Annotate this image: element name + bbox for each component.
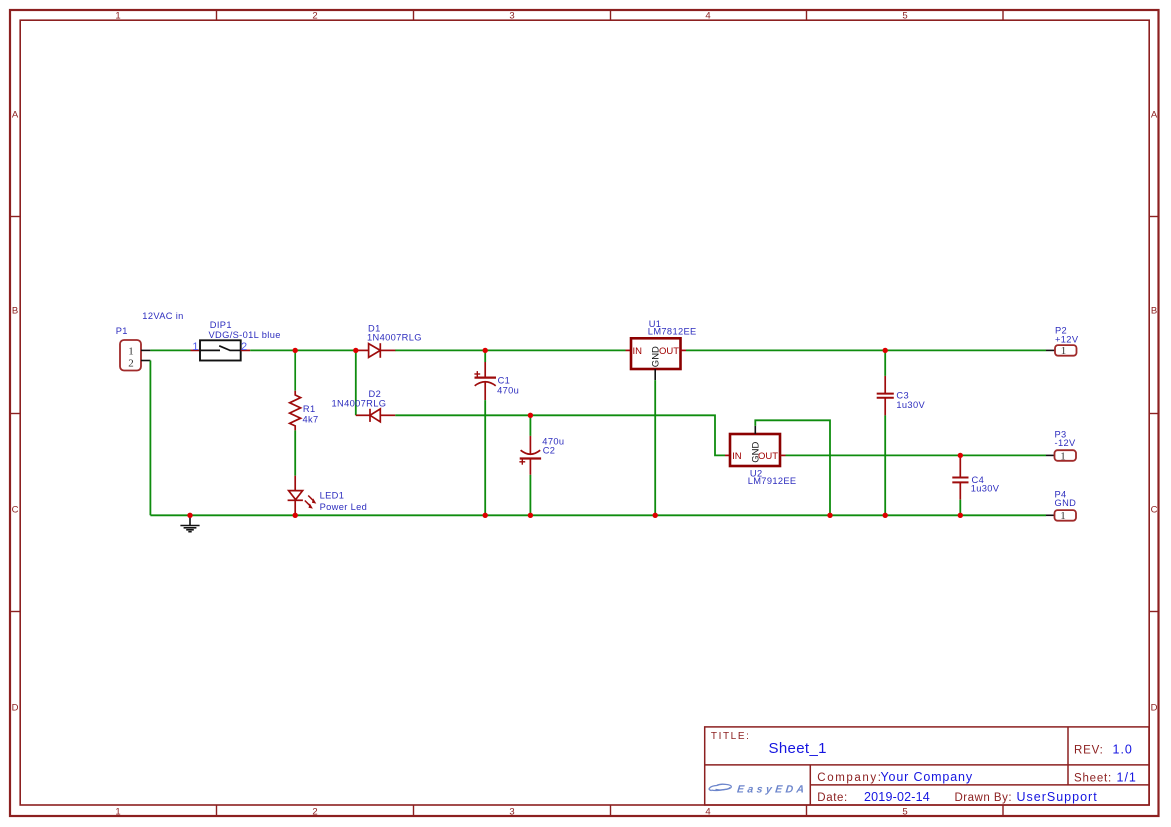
junction C1 ground rail bbox=[483, 513, 488, 518]
svg-text:A: A bbox=[12, 110, 19, 121]
junction C3 ground rail bbox=[883, 513, 888, 518]
connector P4 bbox=[1046, 510, 1076, 522]
regulator U1 bbox=[626, 338, 687, 369]
junction C2 negative rail bbox=[528, 413, 533, 418]
wire U2 GND to ground rail bbox=[755, 420, 830, 515]
svg-text:5: 5 bbox=[902, 807, 907, 818]
LED1 light arrows bbox=[309, 498, 317, 508]
capacitor C4 bbox=[952, 457, 968, 500]
svg-text:-12V: -12V bbox=[1055, 438, 1076, 448]
svg-text:2: 2 bbox=[312, 11, 317, 22]
svg-text:1: 1 bbox=[128, 346, 134, 358]
svg-text:1: 1 bbox=[192, 341, 198, 353]
wire U2 OUT to P3 bbox=[786, 454, 1047, 456]
svg-text:D: D bbox=[12, 703, 19, 714]
wire C3 down bbox=[884, 415, 886, 515]
capacitor C3 bbox=[877, 350, 894, 415]
U2 GND stub bbox=[754, 426, 756, 434]
ground rail bbox=[150, 514, 1046, 516]
junction U2 GND ground rail bbox=[827, 513, 832, 518]
junction R1 top rail bbox=[293, 348, 298, 353]
svg-text:1: 1 bbox=[1061, 345, 1067, 357]
wire C2 down bbox=[529, 475, 531, 516]
svg-text:B: B bbox=[1151, 306, 1157, 317]
svg-text:GND: GND bbox=[750, 442, 761, 463]
EasyEDA logo bbox=[709, 783, 808, 795]
wire R1 to LED1 bbox=[294, 430, 296, 475]
svg-text:VDG/S-01L blue: VDG/S-01L blue bbox=[209, 330, 281, 340]
regulator U2 bbox=[725, 434, 786, 466]
svg-text:1: 1 bbox=[1060, 450, 1066, 462]
junction C2 ground rail bbox=[528, 513, 533, 518]
svg-text:Your Company: Your Company bbox=[881, 770, 973, 784]
svg-text:3: 3 bbox=[509, 807, 514, 818]
svg-text:LED1: LED1 bbox=[320, 491, 345, 501]
junction D2 branch top rail bbox=[353, 348, 358, 353]
svg-text:Power Led: Power Led bbox=[320, 502, 368, 512]
svg-text:TITLE:: TITLE: bbox=[711, 731, 751, 742]
wire C4 down bbox=[959, 500, 961, 516]
U1 GND stub bbox=[654, 369, 656, 380]
svg-text:DIP1: DIP1 bbox=[210, 320, 232, 330]
wire U1 GND down bbox=[654, 380, 656, 515]
LED LED1 bbox=[288, 476, 314, 516]
svg-text:IN: IN bbox=[633, 346, 643, 357]
svg-text:1: 1 bbox=[115, 11, 120, 22]
svg-text:1u30V: 1u30V bbox=[896, 400, 925, 410]
svg-text:Sheet_1: Sheet_1 bbox=[769, 740, 827, 757]
svg-text:12VAC in: 12VAC in bbox=[142, 311, 183, 321]
ground symbol bbox=[180, 515, 199, 531]
svg-text:D2: D2 bbox=[369, 389, 382, 399]
svg-text:+12V: +12V bbox=[1055, 335, 1079, 345]
svg-text:4: 4 bbox=[705, 807, 710, 818]
capacitor C1 bbox=[474, 350, 496, 400]
wire branch down to D2 bbox=[355, 350, 357, 415]
svg-text:Company:: Company: bbox=[817, 772, 882, 784]
wire U1 OUT to P2 bbox=[686, 349, 1046, 351]
svg-text:REV:: REV: bbox=[1074, 745, 1104, 757]
wire P1 pin2 down bbox=[149, 361, 151, 516]
P1 pin 1 stub bbox=[141, 349, 150, 351]
capacitor C2 bbox=[519, 415, 541, 475]
svg-text:4: 4 bbox=[705, 11, 710, 22]
svg-text:1/1: 1/1 bbox=[1117, 771, 1137, 785]
title block bbox=[705, 727, 1149, 805]
svg-text:3: 3 bbox=[509, 11, 514, 22]
wire D2 row bbox=[395, 415, 725, 455]
svg-text:C1: C1 bbox=[498, 376, 511, 386]
svg-text:LM7812EE: LM7812EE bbox=[648, 326, 697, 336]
junction C4 output wire bbox=[958, 453, 963, 458]
svg-text:R1: R1 bbox=[303, 404, 316, 414]
svg-text:1: 1 bbox=[1060, 510, 1066, 522]
diode D1 bbox=[356, 343, 396, 358]
svg-text:5: 5 bbox=[902, 11, 907, 22]
svg-text:470u: 470u bbox=[497, 386, 519, 396]
junction ground symbol rail bbox=[187, 513, 192, 518]
svg-text:1u30V: 1u30V bbox=[971, 484, 1000, 494]
svg-text:Date:: Date: bbox=[817, 792, 848, 804]
svg-text:D: D bbox=[1151, 703, 1158, 714]
svg-text:OUT: OUT bbox=[659, 346, 679, 357]
svg-text:2: 2 bbox=[312, 807, 317, 818]
connector P2 bbox=[1046, 345, 1077, 357]
junction C3 top rail bbox=[883, 348, 888, 353]
junction U1 GND ground rail bbox=[653, 513, 658, 518]
svg-text:4k7: 4k7 bbox=[303, 414, 319, 424]
svg-text:UserSupport: UserSupport bbox=[1017, 790, 1098, 804]
junction LED1 ground rail bbox=[293, 513, 298, 518]
svg-text:C3: C3 bbox=[896, 391, 909, 401]
switch DIP1 bbox=[191, 340, 251, 360]
svg-text:Sheet:: Sheet: bbox=[1074, 773, 1112, 785]
svg-text:A: A bbox=[1151, 110, 1158, 121]
svg-text:1: 1 bbox=[115, 807, 120, 818]
svg-text:P1: P1 bbox=[116, 326, 128, 336]
svg-text:2: 2 bbox=[128, 357, 134, 369]
svg-text:EasyEDA: EasyEDA bbox=[736, 783, 808, 795]
junction C1 top rail bbox=[483, 348, 488, 353]
diode D2 bbox=[356, 409, 396, 422]
svg-text:2019-02-14: 2019-02-14 bbox=[864, 790, 930, 804]
svg-text:C2: C2 bbox=[543, 445, 556, 455]
svg-text:1.0: 1.0 bbox=[1113, 743, 1133, 757]
svg-text:GND: GND bbox=[1055, 498, 1077, 508]
connector P3 bbox=[1046, 450, 1076, 462]
svg-text:GND: GND bbox=[650, 346, 661, 367]
svg-text:LM7912EE: LM7912EE bbox=[748, 476, 797, 486]
svg-text:B: B bbox=[12, 306, 18, 317]
resistor R1 bbox=[290, 350, 301, 430]
svg-text:1N4007RLG: 1N4007RLG bbox=[367, 333, 422, 343]
svg-text:C: C bbox=[1151, 505, 1158, 516]
wire P1 to DIP1 bbox=[150, 349, 190, 351]
wire D1 to U1 bbox=[395, 349, 626, 351]
wire C1 down bbox=[484, 400, 486, 515]
wire DIP1 to junction bbox=[250, 349, 356, 351]
svg-text:IN: IN bbox=[732, 451, 742, 462]
connector P1 bbox=[120, 340, 141, 371]
svg-text:1N4007RLG: 1N4007RLG bbox=[332, 398, 387, 408]
svg-text:2: 2 bbox=[241, 341, 247, 353]
junction C4 ground rail bbox=[958, 513, 963, 518]
svg-text:Drawn By:: Drawn By: bbox=[955, 792, 1013, 804]
svg-text:C: C bbox=[12, 505, 19, 516]
P1 pin 2 stub bbox=[141, 360, 150, 362]
